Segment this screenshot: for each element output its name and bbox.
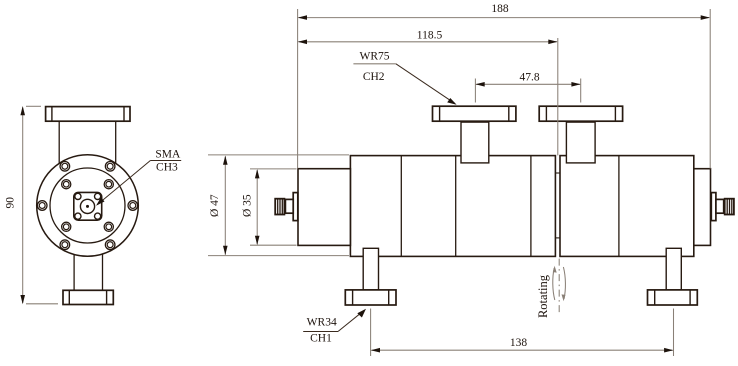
svg-text:CH3: CH3	[156, 162, 178, 174]
dimension 138 left extension	[370, 309, 372, 357]
top left flange end caps	[439, 106, 441, 121]
bottom flange plate WR34 (front view)	[63, 290, 113, 304]
WR34 leader arrowhead	[357, 309, 366, 318]
dimension dia35 line	[256, 170, 258, 244]
bolt hole inner 135deg	[104, 222, 113, 231]
svg-text:Ø 35: Ø 35	[242, 194, 254, 217]
top left port flange WR75	[433, 106, 516, 121]
main body right half	[560, 156, 694, 257]
bottom waveguide neck (front view)	[73, 248, 75, 291]
right SMA connector nut	[725, 199, 734, 215]
rotating axis dash-dot centerline	[558, 259, 560, 313]
dimension dia35 bottom extension	[250, 244, 297, 246]
bottom flange plate left end cap	[68, 290, 70, 304]
outer flange circle	[37, 155, 139, 257]
right SMA nut ribs	[726, 199, 728, 215]
left end housing	[298, 169, 350, 246]
left SMA nut ribs	[277, 199, 279, 215]
top left port neck WR75	[461, 122, 489, 163]
dimension 90 extension line top	[26, 105, 41, 107]
SMA square corner hole BL	[75, 213, 81, 219]
svg-text:CH1: CH1	[310, 332, 332, 344]
dimension dia47 arrow down	[223, 246, 228, 255]
left SMA connector shaft	[285, 199, 293, 213]
svg-text:SMA: SMA	[155, 148, 181, 160]
bottom right flange end caps	[654, 290, 656, 305]
svg-text:188: 188	[491, 3, 509, 15]
rotary gap notch bottom	[555, 237, 560, 239]
dimension 118.5 line	[299, 41, 557, 43]
dimension 118.5 middle extension	[557, 38, 559, 155]
WR75 leader underline	[353, 63, 396, 65]
dimension dia35 top extension	[250, 168, 297, 170]
WR34 leader line	[338, 310, 364, 331]
svg-text:Ø 47: Ø 47	[209, 194, 221, 217]
body segment line 4	[618, 156, 620, 257]
svg-text:CH2: CH2	[363, 71, 385, 83]
dimension 188 arrow left	[298, 15, 307, 20]
bolt hole outer 30deg	[105, 161, 115, 171]
top right port flange WR75	[539, 106, 622, 121]
dimension 188 left extension	[297, 9, 299, 169]
dimension dia47 top extension	[208, 154, 349, 156]
bolt hole inner 315deg	[62, 180, 71, 189]
dimension dia47 line	[224, 157, 226, 255]
dimension 90 arrow down	[20, 295, 25, 304]
dimension 47.8 right tick	[580, 79, 582, 103]
dimension 47.8 arrow left	[475, 82, 484, 87]
SMA center pin dot	[86, 205, 89, 208]
right SMA connector shaft	[716, 199, 724, 213]
SMA CH3 leader line	[98, 161, 151, 205]
dimension 138 line	[372, 349, 673, 351]
bottom right port flange WR34	[648, 290, 698, 305]
dimension 138 arrow left	[371, 348, 380, 353]
bottom left flange end caps	[352, 290, 354, 305]
right end housing	[694, 169, 711, 246]
top flange plate WR75 (front view)	[46, 107, 130, 122]
bottom left port neck WR34	[363, 248, 378, 290]
bolt hole outer 270deg	[37, 201, 47, 211]
bolt hole outer 90deg	[128, 201, 138, 211]
SMA CH3 leader underline	[150, 160, 181, 162]
svg-text:WR75: WR75	[359, 50, 389, 62]
dimension dia35 arrow down	[255, 236, 260, 245]
dimension 90 extension line bottom	[26, 303, 58, 305]
SMA CH3 leader arrowhead	[96, 197, 105, 206]
SMA square corner hole BR	[95, 213, 101, 219]
bolt hole outer 150deg	[105, 240, 115, 250]
main body left half	[350, 156, 555, 257]
bolt hole inner 45deg	[104, 180, 113, 189]
rotation arrow right (down)	[563, 267, 565, 299]
dimension 90 arrow up	[20, 106, 25, 115]
top right port neck WR75	[566, 122, 595, 163]
svg-text:47.8: 47.8	[519, 71, 539, 83]
bolt hole outer 330deg	[60, 161, 70, 171]
SMA square corner hole TR	[95, 193, 101, 199]
dimension 47.8 arrow right	[571, 82, 580, 87]
WR75 leader line	[396, 64, 455, 104]
SMA center circle	[80, 199, 94, 213]
rotary gap notch top	[555, 172, 560, 174]
svg-text:118.5: 118.5	[417, 29, 443, 41]
left SMA connector nut	[275, 199, 284, 215]
bottom right port neck WR34	[666, 248, 681, 290]
dimension 188 arrow right	[701, 15, 710, 20]
dimension 138 arrow right	[664, 348, 673, 353]
body segment line 3	[530, 156, 532, 257]
rotation arrow left (up)	[553, 268, 555, 300]
bolt hole inner 225deg	[62, 222, 71, 231]
left SMA connector flange	[293, 193, 298, 221]
inner circle	[50, 168, 125, 243]
svg-text:WR34: WR34	[307, 317, 337, 329]
WR34 leader underline	[303, 331, 338, 333]
top waveguide neck (front view)	[58, 121, 60, 164]
dimension 47.8 line	[476, 83, 580, 85]
WR75 leader arrowhead	[447, 98, 456, 105]
dimension dia47 arrow up	[223, 156, 228, 165]
dimension 118.5 arrow right	[548, 40, 557, 45]
svg-text:90: 90	[5, 197, 17, 209]
svg-text:138: 138	[510, 337, 528, 349]
bolt hole outer 210deg	[60, 240, 70, 250]
top right flange end caps	[545, 106, 547, 121]
dimension dia47 bottom extension	[208, 255, 349, 257]
body segment line 2	[455, 156, 457, 257]
bottom flange plate right end cap	[106, 290, 108, 304]
dimension 188 line	[299, 17, 710, 19]
dimension 90 line	[22, 108, 24, 304]
top flange plate right end cap	[123, 107, 125, 122]
bottom left port flange WR34	[345, 290, 396, 305]
dimension 47.8 left tick	[474, 79, 476, 103]
svg-text:Rotating: Rotating	[536, 274, 550, 318]
SMA square corner hole TL	[75, 193, 81, 199]
dimension 118.5 arrow left	[298, 40, 307, 45]
dimension 188 right extension	[709, 9, 711, 169]
dimension dia35 arrow up	[255, 169, 260, 178]
right SMA connector flange	[711, 193, 716, 221]
dimension 138 right extension	[673, 309, 675, 357]
body segment line 1	[400, 156, 402, 257]
SMA connector square flange (front view)	[74, 192, 102, 220]
top flange plate left end cap	[51, 107, 53, 122]
